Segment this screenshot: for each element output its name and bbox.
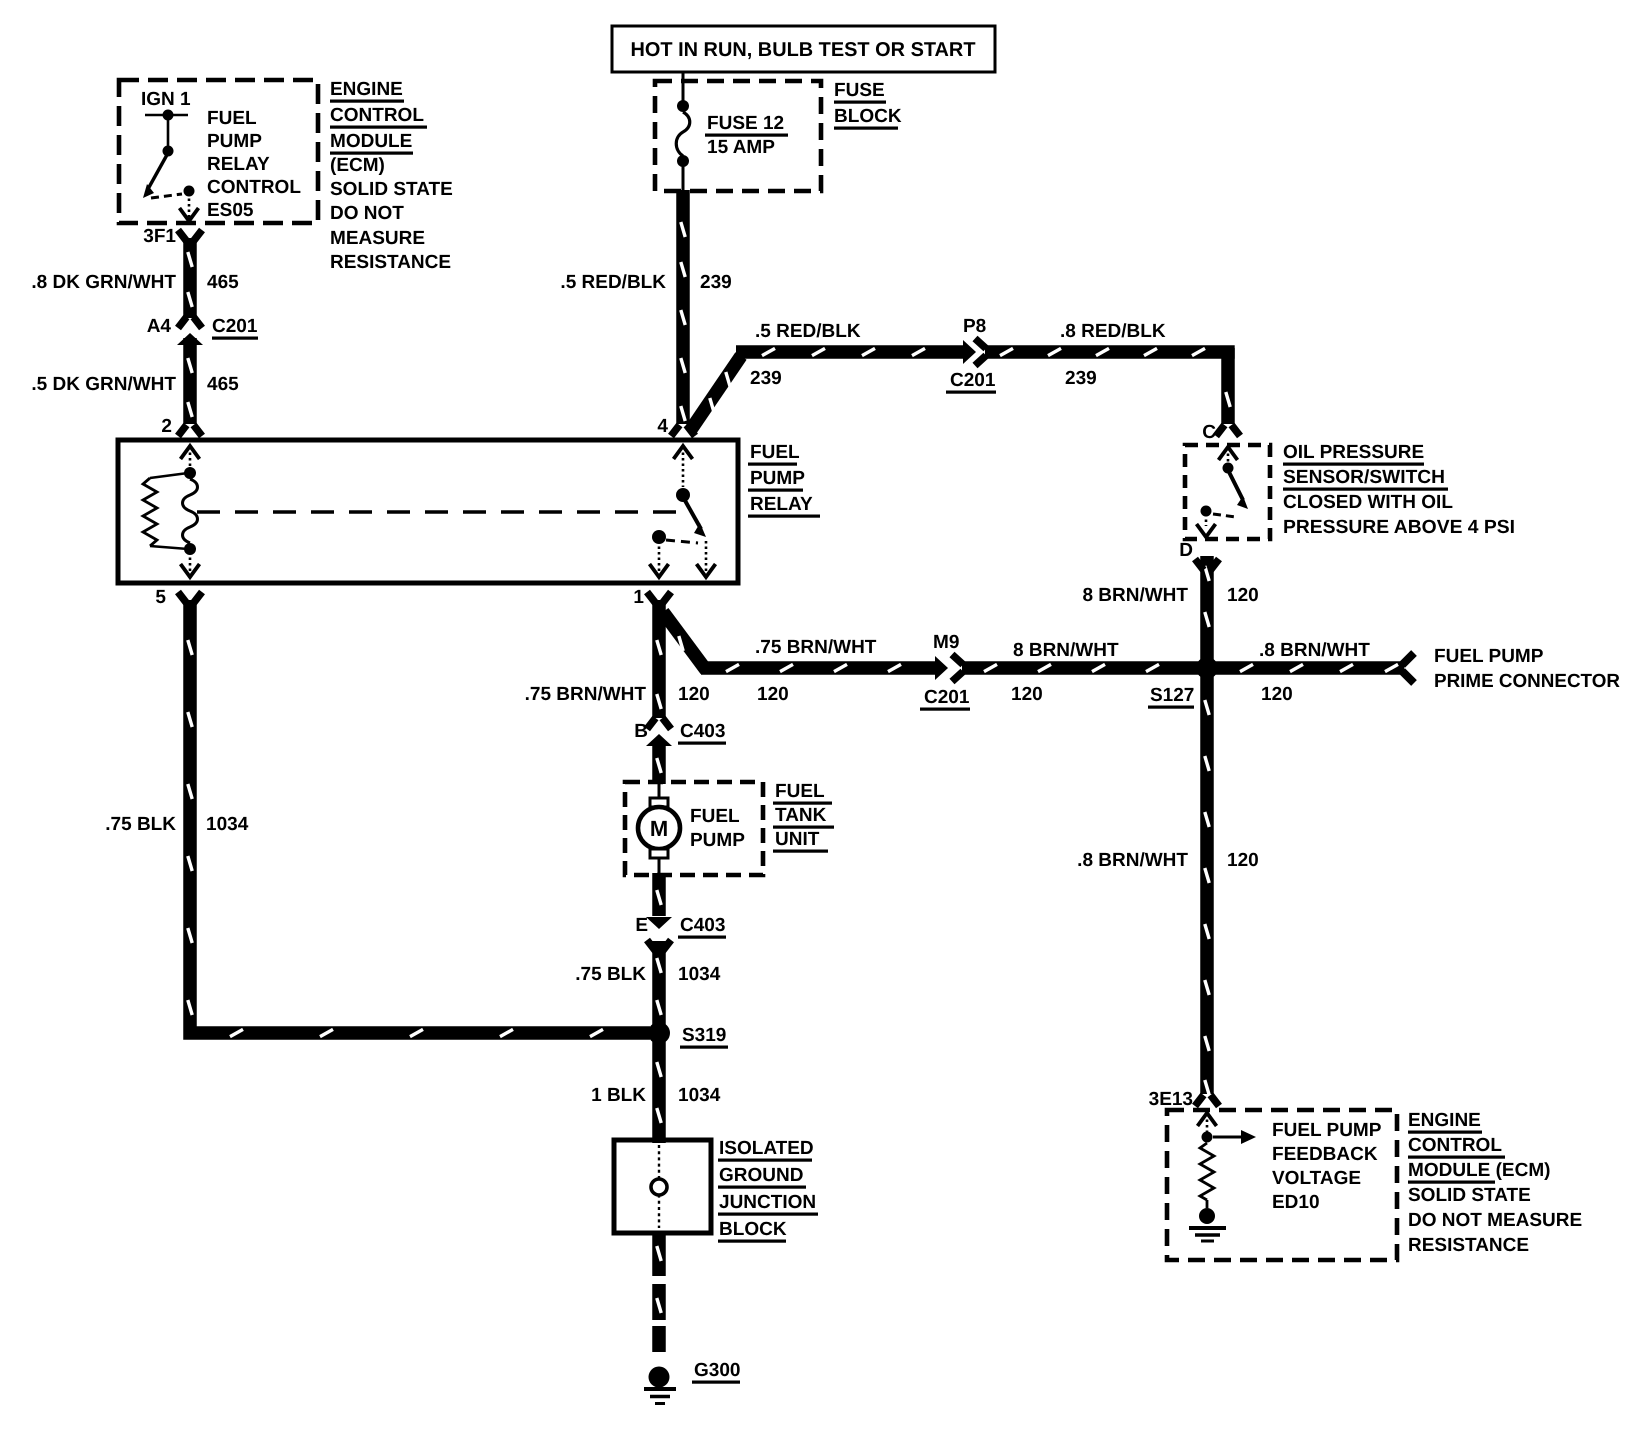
svg-text:E: E	[635, 915, 648, 936]
svg-text:C201: C201	[924, 687, 970, 708]
svg-text:.75 BRN/WHT: .75 BRN/WHT	[755, 637, 877, 658]
svg-text:CLOSED WITH OIL: CLOSED WITH OIL	[1283, 492, 1453, 513]
svg-text:FUEL: FUEL	[775, 781, 825, 802]
svg-text:ISOLATED: ISOLATED	[719, 1138, 814, 1159]
svg-text:PUMP: PUMP	[750, 468, 805, 489]
svg-text:C403: C403	[680, 721, 725, 742]
svg-text:.75 BLK: .75 BLK	[105, 814, 176, 835]
svg-text:239: 239	[750, 368, 782, 389]
svg-text:.75 BRN/WHT: .75 BRN/WHT	[525, 684, 647, 705]
svg-text:PRESSURE ABOVE 4 PSI: PRESSURE ABOVE 4 PSI	[1283, 517, 1515, 538]
svg-text:15 AMP: 15 AMP	[707, 137, 775, 158]
svg-text:120: 120	[1011, 684, 1043, 705]
svg-text:PRIME CONNECTOR: PRIME CONNECTOR	[1434, 671, 1620, 692]
svg-text:ED10: ED10	[1272, 1192, 1320, 1213]
svg-text:.5 DK GRN/WHT: .5 DK GRN/WHT	[31, 374, 176, 395]
svg-text:ENGINE: ENGINE	[1408, 1110, 1481, 1131]
svg-text:ENGINE: ENGINE	[330, 79, 403, 100]
svg-text:5: 5	[155, 587, 166, 608]
svg-text:120: 120	[757, 684, 789, 705]
svg-text:RELAY: RELAY	[207, 154, 270, 175]
svg-text:S319: S319	[682, 1025, 726, 1046]
svg-text:.8 BRN/WHT: .8 BRN/WHT	[1259, 640, 1370, 661]
svg-text:C403: C403	[680, 915, 725, 936]
svg-text:120: 120	[1261, 684, 1293, 705]
svg-text:BLOCK: BLOCK	[834, 106, 902, 127]
svg-text:UNIT: UNIT	[775, 829, 820, 850]
svg-text:MEASURE: MEASURE	[330, 228, 425, 249]
svg-text:1034: 1034	[678, 964, 721, 985]
svg-text:1 BLK: 1 BLK	[591, 1085, 646, 1106]
svg-text:C201: C201	[212, 316, 258, 337]
svg-text:.8 BRN/WHT: .8 BRN/WHT	[1077, 850, 1188, 871]
svg-text:SENSOR/SWITCH: SENSOR/SWITCH	[1283, 467, 1445, 488]
svg-text:M9: M9	[933, 632, 959, 653]
svg-text:.5 RED/BLK: .5 RED/BLK	[755, 321, 861, 342]
svg-text:239: 239	[1065, 368, 1097, 389]
svg-text:FUEL: FUEL	[690, 806, 740, 827]
svg-text:2: 2	[161, 416, 172, 437]
svg-text:.8 RED/BLK: .8 RED/BLK	[1060, 321, 1166, 342]
svg-text:B: B	[634, 721, 648, 742]
svg-text:1: 1	[633, 587, 644, 608]
svg-text:CONTROL: CONTROL	[1408, 1135, 1502, 1156]
svg-text:CONTROL: CONTROL	[330, 105, 424, 126]
svg-text:FUEL: FUEL	[207, 108, 257, 129]
svg-text:FUEL PUMP: FUEL PUMP	[1272, 1120, 1382, 1141]
svg-text:D: D	[1179, 540, 1193, 561]
svg-text:RESISTANCE: RESISTANCE	[330, 252, 451, 273]
svg-text:.5 RED/BLK: .5 RED/BLK	[560, 272, 666, 293]
svg-text:DO NOT MEASURE: DO NOT MEASURE	[1408, 1210, 1582, 1231]
svg-text:3F1: 3F1	[143, 226, 176, 247]
svg-text:S127: S127	[1150, 685, 1194, 706]
svg-text:M: M	[650, 816, 668, 841]
svg-text:120: 120	[678, 684, 710, 705]
svg-text:CONTROL: CONTROL	[207, 177, 301, 198]
svg-text:G300: G300	[694, 1360, 740, 1381]
svg-text:.8 DK GRN/WHT: .8 DK GRN/WHT	[31, 272, 176, 293]
svg-text:PUMP: PUMP	[690, 830, 745, 851]
svg-text:465: 465	[207, 272, 239, 293]
svg-text:FUEL: FUEL	[750, 442, 800, 463]
svg-text:8 BRN/WHT: 8 BRN/WHT	[1082, 585, 1188, 606]
svg-text:IGN 1: IGN 1	[141, 89, 191, 110]
svg-text:RESISTANCE: RESISTANCE	[1408, 1235, 1529, 1256]
svg-text:DO NOT: DO NOT	[330, 203, 404, 224]
svg-text:P8: P8	[963, 316, 986, 337]
svg-text:GROUND: GROUND	[719, 1165, 803, 1186]
svg-text:4: 4	[657, 416, 668, 437]
svg-text:239: 239	[700, 272, 732, 293]
svg-text:HOT IN RUN, BULB TEST OR START: HOT IN RUN, BULB TEST OR START	[631, 39, 976, 61]
svg-text:FUSE: FUSE	[834, 80, 885, 101]
svg-text:465: 465	[207, 374, 239, 395]
svg-text:(ECM): (ECM)	[330, 155, 385, 176]
svg-text:C: C	[1202, 422, 1216, 443]
svg-text:OIL PRESSURE: OIL PRESSURE	[1283, 442, 1424, 463]
svg-text:1034: 1034	[206, 814, 249, 835]
svg-text:PUMP: PUMP	[207, 131, 262, 152]
svg-text:.75 BLK: .75 BLK	[575, 964, 646, 985]
svg-text:TANK: TANK	[775, 805, 827, 826]
svg-text:120: 120	[1227, 850, 1259, 871]
svg-text:1034: 1034	[678, 1085, 721, 1106]
svg-text:SOLID STATE: SOLID STATE	[330, 179, 453, 200]
svg-text:120: 120	[1227, 585, 1259, 606]
svg-text:VOLTAGE: VOLTAGE	[1272, 1168, 1361, 1189]
svg-text:FUEL PUMP: FUEL PUMP	[1434, 646, 1544, 667]
svg-text:A4: A4	[147, 316, 172, 337]
svg-text:8 BRN/WHT: 8 BRN/WHT	[1013, 640, 1119, 661]
svg-text:RELAY: RELAY	[750, 494, 813, 515]
svg-text:BLOCK: BLOCK	[719, 1219, 787, 1240]
svg-text:MODULE: MODULE	[330, 131, 412, 152]
svg-text:JUNCTION: JUNCTION	[719, 1192, 816, 1213]
svg-text:C201: C201	[950, 370, 996, 391]
svg-text:SOLID STATE: SOLID STATE	[1408, 1185, 1531, 1206]
svg-text:MODULE (ECM): MODULE (ECM)	[1408, 1160, 1550, 1181]
svg-text:3E13: 3E13	[1149, 1089, 1193, 1110]
svg-text:FEEDBACK: FEEDBACK	[1272, 1144, 1378, 1165]
svg-text:ES05: ES05	[207, 200, 254, 221]
svg-text:FUSE 12: FUSE 12	[707, 113, 784, 134]
